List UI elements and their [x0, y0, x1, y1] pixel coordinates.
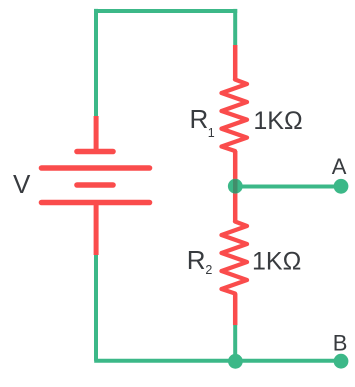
wire: R2 lead to node B (green) — [233, 325, 237, 361]
resistor R1 zigzag — [222, 80, 248, 152]
wire: R2 bottom lead (red) — [233, 294, 238, 326]
battery V: plate 2 long — [42, 165, 150, 171]
wire: right vertical upper (green) — [233, 9, 237, 45]
wire: battery bottom lead (red) — [94, 204, 99, 255]
wire: bottom horizontal (green) — [94, 359, 341, 363]
svg-text:1KΩ: 1KΩ — [252, 248, 301, 276]
svg-text:1KΩ: 1KΩ — [253, 107, 302, 135]
battery V: plate 1 short — [77, 149, 113, 155]
wire: battery top lead (red) — [94, 116, 99, 150]
terminal A dot — [334, 179, 349, 194]
resistor R2 zigzag — [222, 222, 248, 294]
svg-text:1: 1 — [208, 126, 215, 140]
node A wire-under-dot shading — [233, 179, 238, 193]
svg-text:V: V — [13, 169, 31, 199]
wire: node A to terminal A (green) — [235, 185, 341, 189]
battery V: plate 4 long — [42, 200, 150, 206]
node A junction dot — [228, 179, 243, 194]
svg-text:R: R — [190, 104, 209, 134]
svg-text:2: 2 — [205, 263, 212, 277]
svg-text:R: R — [187, 245, 206, 275]
wire: R1 bottom lead to node A (red) — [233, 151, 238, 187]
wire: left vertical lower (green) — [94, 255, 98, 361]
wire: node A to R2 lead (red) — [233, 187, 238, 222]
wire: top horizontal (green) — [94, 9, 237, 13]
svg-text:B: B — [333, 330, 348, 355]
battery V: plate 3 short — [77, 182, 113, 188]
node B junction dot — [228, 354, 243, 369]
svg-text:A: A — [332, 154, 347, 179]
wire: R1 top lead (red) — [233, 45, 238, 80]
wire: left vertical upper (green) — [94, 9, 98, 116]
terminal B dot — [334, 354, 349, 369]
